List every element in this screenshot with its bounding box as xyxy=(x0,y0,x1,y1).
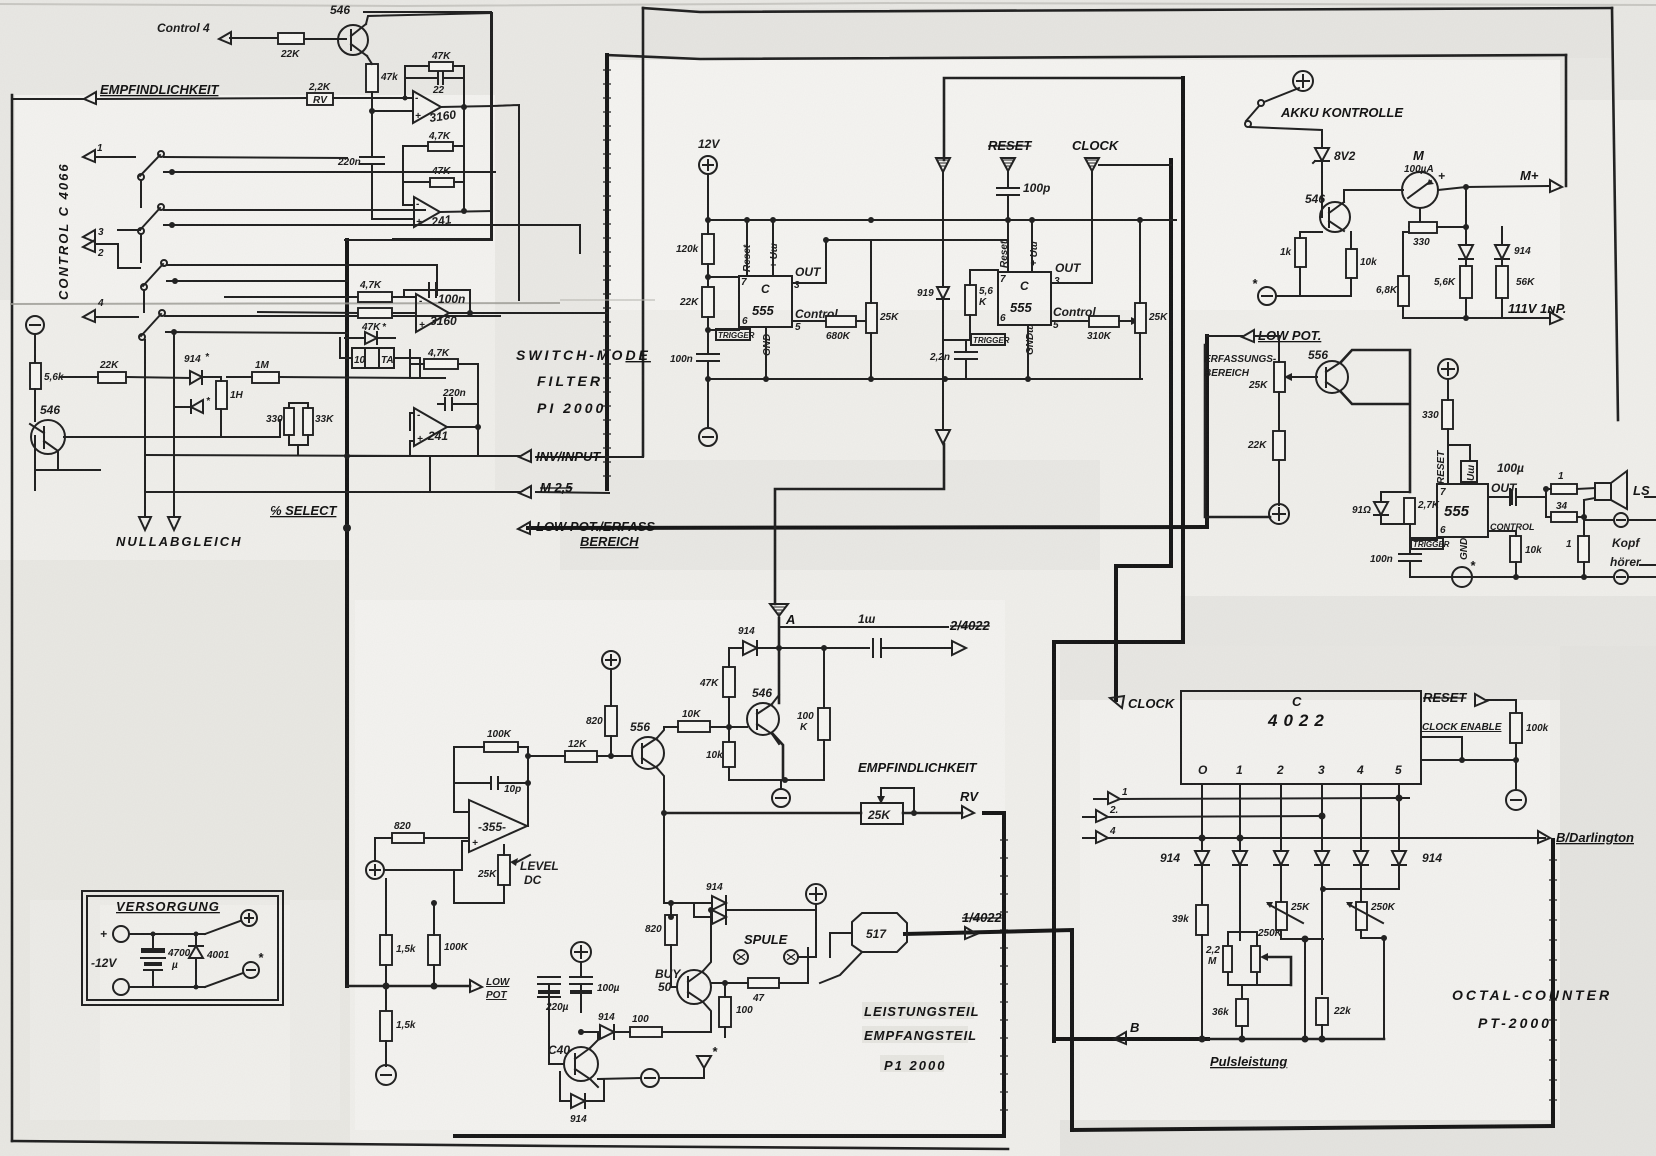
wire bus junction dot lowpot xyxy=(343,524,351,532)
wire 556 emitter down to RV line xyxy=(657,768,694,903)
coil contact 1 xyxy=(734,950,748,964)
node minus circle gnd xyxy=(707,379,709,428)
wire erfassungs box xyxy=(1205,345,1270,517)
resistor 1K vertical xyxy=(1295,238,1306,267)
wire 12V down xyxy=(707,174,709,220)
diode column 0 xyxy=(1195,851,1209,865)
transistor Q4 556 erfassung xyxy=(1316,361,1348,393)
wire A node step xyxy=(775,444,944,604)
diode D13 4001 xyxy=(189,946,203,958)
wire clock vertical from 555 out xyxy=(1116,160,1171,700)
scan top edge line xyxy=(0,3,1656,6)
node minus circle gnd mid xyxy=(641,1069,659,1087)
wire c40 emitter to gnd xyxy=(590,1078,640,1087)
node + circle erfassung xyxy=(1269,504,1289,524)
wire EMPFINDLICHKEIT RV line xyxy=(664,812,861,815)
resistor 10K 555-3 xyxy=(1510,536,1521,562)
wire zener column xyxy=(942,172,944,430)
switch to - output xyxy=(205,973,243,987)
node LOW POT arrow bottom xyxy=(470,980,482,992)
switch S4 xyxy=(141,314,161,336)
diode D7 914 xyxy=(1495,245,1509,259)
transistor Q5 546 mid xyxy=(747,703,779,735)
potentiometer LEVEL DC 25K xyxy=(498,855,510,885)
wire BUY50 wiring xyxy=(671,910,711,1032)
wire output right xyxy=(441,106,492,107)
wire switch chain link 3 xyxy=(143,290,145,312)
wire right-bottom frame right vertical B/Darlington loop xyxy=(1551,840,1555,1126)
potentiometer 250K column4 xyxy=(1356,902,1367,930)
node INV/INPUT arrow xyxy=(519,450,531,462)
node CLOCK flag xyxy=(1085,158,1099,171)
resistor 5.2K mid xyxy=(428,142,453,151)
node minus circle 4022 xyxy=(1506,790,1526,810)
capacitor 220n xyxy=(360,157,384,219)
wire mid top inner box xyxy=(944,78,1182,160)
wire 3/2 vertical to switches xyxy=(118,230,140,268)
node + circle above 820 xyxy=(602,651,620,669)
text P12000 xyxy=(880,1055,944,1072)
resistor 47K vertical a-node xyxy=(723,667,735,697)
wire Vcc rail xyxy=(708,219,1176,221)
node + out circle xyxy=(241,910,257,926)
IC U6 555 second xyxy=(998,272,1051,325)
wire switch to zener xyxy=(1250,127,1322,148)
wire line 4 to B/Darlington xyxy=(1096,831,1108,843)
resistor 4.7K pair top xyxy=(358,292,392,302)
resistor 34 lower xyxy=(1546,489,1551,517)
wire 2.2M to 36k xyxy=(1241,985,1243,999)
resistor 56K vertical akku xyxy=(1496,266,1508,298)
potentiometer 25K first xyxy=(866,303,877,333)
text LEISTUNGSTEIL xyxy=(862,1002,974,1019)
resistor 100K 4022 xyxy=(1510,713,1522,743)
wire base xyxy=(304,38,346,40)
wire hoerer line xyxy=(1640,564,1656,566)
inductor 1H xyxy=(216,381,227,409)
op-amp U3 3160 xyxy=(416,294,449,332)
wire TA wiring xyxy=(340,338,420,378)
wire s3 lines xyxy=(167,265,437,295)
resistor 330 vertical xyxy=(284,408,294,435)
wire long horizontals to filter resistors xyxy=(225,297,358,313)
wire + rail xyxy=(129,933,205,935)
diode column 4 xyxy=(1354,851,1368,865)
node EMPFINDLICHKEIT arrow xyxy=(84,92,96,104)
wire minus to 5.6k xyxy=(34,334,36,363)
wire collector to frame xyxy=(366,13,492,24)
wire frame vertical 492 xyxy=(345,13,492,240)
wire right-bottom frame bottom xyxy=(1072,1126,1553,1130)
resistor RV 2.2K xyxy=(307,93,333,105)
resistor 100K vertical bottom-left xyxy=(428,935,440,965)
box 517 driver xyxy=(852,913,907,952)
wire meter to M+ arrow xyxy=(1438,186,1548,190)
resistor 820 vertical xyxy=(605,706,617,736)
wire output to frame xyxy=(449,312,607,314)
resistor 680K xyxy=(826,316,856,327)
wire 2/4022 upper line xyxy=(779,626,948,628)
resistor 47K feedback top xyxy=(429,62,453,71)
diode column 1 xyxy=(1233,851,1247,865)
resistor 5.6K vertical xyxy=(30,363,41,389)
node CLOCK arrow 4022 xyxy=(1110,696,1124,708)
diode D3 above TA box xyxy=(365,332,377,344)
box TRIGGER 555-3 xyxy=(1411,538,1443,549)
wire 47K-2 xyxy=(403,181,464,183)
node + circle cap xyxy=(571,942,591,962)
resistor 47K pair bottom xyxy=(358,308,392,318)
transistor Q2 546 lower-left xyxy=(31,420,65,454)
capacitor 220n 241 xyxy=(438,398,478,410)
capacitor 1n series xyxy=(873,639,952,657)
node + circle left xyxy=(366,861,384,879)
node B/Darlington arrow xyxy=(1538,831,1550,843)
ground star symbol xyxy=(697,1056,711,1068)
node minus star xyxy=(1258,287,1276,305)
wire arrow into pot 25K xyxy=(856,320,866,322)
capacitor 100u out xyxy=(1488,489,1546,505)
op-amp U1 3160 xyxy=(413,91,441,123)
box TA optocoupler xyxy=(352,348,394,368)
wire B line horizontal xyxy=(1054,1037,1208,1041)
wire top outer frame right vertical xyxy=(1612,8,1618,420)
resistor 100 horizontal low xyxy=(630,1027,662,1037)
wire zener to base xyxy=(1321,161,1322,217)
potentiometer 25K erfassung xyxy=(1274,362,1285,392)
wire left main bus vertical xyxy=(345,240,349,986)
wire s2 lines xyxy=(164,209,425,211)
node LOW POT arrow xyxy=(1242,330,1254,342)
box 25K empfindlichkeit xyxy=(861,803,903,824)
wire inner top frame horizontal xyxy=(607,55,1566,59)
scan seam line left half xyxy=(10,303,560,304)
resistor 10K horizontal xyxy=(678,721,710,732)
wire plus input from emitter node xyxy=(372,110,413,112)
op-amp U2 241 xyxy=(414,197,440,227)
wire 241-2 wiring xyxy=(410,364,478,456)
wire pin stubs xyxy=(1202,784,1399,851)
node + supply akku xyxy=(1293,71,1313,91)
wire 517 down to transistor xyxy=(820,933,862,983)
op-amp U4 241 xyxy=(414,408,447,446)
ground flag second xyxy=(168,517,180,530)
resistor 22K xyxy=(278,33,304,44)
switch S1 xyxy=(140,155,160,176)
capacitor 100u mid xyxy=(570,963,592,997)
text EMPFANGSTEIL xyxy=(862,1026,968,1043)
switch S2 xyxy=(140,208,160,230)
potentiometer 25K column2 xyxy=(1276,902,1287,930)
node arrow 1 xyxy=(83,150,95,162)
zener D5 8V2 xyxy=(1315,148,1329,161)
wire left page border vertical xyxy=(11,95,14,1141)
wire output stub to 517 vertical xyxy=(492,105,519,300)
node + circle 330 xyxy=(1438,359,1458,379)
resistor 22K horizontal xyxy=(98,372,126,383)
wire wiper arrow from 556 xyxy=(1292,376,1317,378)
meter M 100uA xyxy=(1402,172,1438,208)
resistor 310K xyxy=(1089,316,1119,327)
wire 556 to 555-3 xyxy=(1341,350,1410,492)
resistor 47K vertical emitter xyxy=(366,64,378,92)
wire 241 out down xyxy=(477,427,479,456)
diode D12 914 bottom loop xyxy=(560,1072,571,1101)
ground flag node A xyxy=(770,604,788,616)
capacitor 4700u electrolytic xyxy=(152,934,154,948)
zener D8 91 ohm xyxy=(1374,502,1388,515)
wire pot wiper loop xyxy=(1260,953,1268,961)
resistor 22K column3 xyxy=(1316,998,1328,1025)
wire s4 lines xyxy=(145,316,500,517)
resistor 820 vertical buy xyxy=(665,915,677,945)
wire pair to opamp xyxy=(392,290,445,313)
capacitor 22 xyxy=(405,72,464,84)
resistor 22K erfassung xyxy=(1273,431,1285,460)
node M2.5 arrow xyxy=(519,486,531,498)
diode column 3 xyxy=(1315,851,1329,865)
capacitor 2.2n xyxy=(955,340,977,379)
wire select line xyxy=(145,455,430,492)
wire INV/INPUT line xyxy=(462,456,643,457)
box TRIGGER label 555-2 xyxy=(971,334,1005,345)
wire diode to cap xyxy=(757,647,869,649)
transistor Q1 546 xyxy=(338,25,368,55)
wire 241 inputs xyxy=(372,205,414,219)
resistor 47K above 241 xyxy=(430,178,454,187)
wire clock enable net xyxy=(1421,737,1516,760)
box versorgung frame xyxy=(82,891,283,1005)
wire 555-1 out xyxy=(792,240,1008,283)
diode column 5 xyxy=(1392,851,1406,865)
resistor 100K vertical right xyxy=(818,708,830,740)
node + circle spule xyxy=(806,884,826,904)
resistor 47 horizontal xyxy=(748,978,779,988)
node minus circle mid xyxy=(772,789,790,807)
wire top-left box around op-amps xyxy=(364,12,491,239)
wire arrow into pot 25K second xyxy=(1119,320,1131,322)
resistor 1.5K second xyxy=(380,1011,392,1041)
node Control 4 arrow xyxy=(230,37,278,39)
op-amp U8 355 xyxy=(469,800,527,852)
resistor 2.7K vertical xyxy=(1404,498,1415,524)
node phone jack circle 1 xyxy=(1584,519,1614,521)
wire feedback 47K xyxy=(405,66,464,211)
capacitor 10p xyxy=(454,747,528,789)
wire control 555-2 xyxy=(1051,320,1089,322)
wire meter bottom to 330 xyxy=(1409,208,1420,227)
resistor 330 vertical right xyxy=(1442,400,1453,429)
wire switch chain link 2 xyxy=(140,234,142,262)
wire low pot arrow line bottom left xyxy=(347,985,470,988)
switch S3 xyxy=(143,264,163,286)
resistor 47K lower block xyxy=(424,359,458,369)
resistor 1 vertical kopf xyxy=(1578,536,1589,562)
wire 241 output xyxy=(440,211,492,212)
wire A vertical xyxy=(772,618,783,780)
potentiometer 25K second xyxy=(1135,303,1146,333)
resistor 39K column0 xyxy=(1196,905,1208,935)
IC U5 555 first xyxy=(739,276,792,327)
transistor Q7 BUY50 xyxy=(677,970,711,1004)
capacitor 100p xyxy=(997,171,1019,240)
resistor 1M horizontal xyxy=(252,372,279,383)
transistor Q8 C40 xyxy=(564,1047,598,1081)
wire bottom pulse rail xyxy=(1208,1038,1384,1041)
wire 1/4022 heavy line xyxy=(905,930,1072,1130)
zener D4 919 xyxy=(937,287,949,299)
node - out circle star xyxy=(243,962,259,978)
capacitor 100n xyxy=(697,354,719,379)
wire 556 collector to 10K xyxy=(657,727,664,738)
diode D2 lower xyxy=(191,400,203,413)
wire collector to meter xyxy=(1344,190,1403,202)
box TRIGGER label 555-1 xyxy=(716,329,750,340)
wire zener 2.7k parallel xyxy=(1381,492,1437,540)
switch to + output xyxy=(196,921,240,934)
speaker LS xyxy=(1595,483,1611,500)
box Ue 555-3 xyxy=(1461,461,1477,482)
resistor 5.6K vertical akku xyxy=(1460,266,1472,298)
resistor 1.5K vertical xyxy=(380,935,392,965)
wire 555 frame right vertical down xyxy=(1181,78,1185,642)
resistor 2.2M pair box xyxy=(1228,932,1257,985)
wire gnd rail xyxy=(708,378,1142,380)
diode D9 914 top xyxy=(729,647,743,649)
wire transistor to bus xyxy=(34,470,36,490)
node +12V supply xyxy=(699,156,717,174)
node arrow 4 xyxy=(83,310,95,322)
resistor 820 horizontal xyxy=(392,833,424,843)
resistor 10K vertical akku xyxy=(1346,249,1357,278)
node B arrow xyxy=(1114,1032,1126,1044)
wire top outer frame left vertical xyxy=(642,8,645,456)
node - terminal xyxy=(113,979,129,995)
IC U9 4022 box xyxy=(1181,691,1421,784)
wire IIIV INP line xyxy=(1403,317,1548,319)
node phone jack circle 2 xyxy=(1614,570,1628,584)
ground flag small mid xyxy=(936,158,950,172)
node arrow 3 2 xyxy=(83,230,95,242)
resistor 1 horizontal speaker xyxy=(1551,484,1577,494)
resistor 33K vertical xyxy=(303,408,313,435)
wire - rail xyxy=(129,986,205,988)
wire RV heavy vertical right xyxy=(455,813,1004,1136)
down arrow connector A xyxy=(936,430,950,444)
resistor 12K horizontal xyxy=(565,751,597,762)
IC U7 555 third xyxy=(1437,484,1488,537)
wire low pot erfass heavy horizontal xyxy=(528,527,1207,528)
wire col2 down xyxy=(1304,939,1306,1039)
wire into 555-3 top xyxy=(1469,482,1471,484)
wire line 1 xyxy=(1108,792,1120,804)
diode D1 914 xyxy=(190,371,202,384)
wire to opamp minus xyxy=(333,97,413,99)
resistor 36K xyxy=(1236,999,1248,1026)
node LOW POT/ERFASS arrow xyxy=(518,522,530,534)
wire 555-2 supply pins xyxy=(1008,220,1032,379)
resistor 100 vertical buy xyxy=(719,997,731,1027)
node 2/4022 arrow xyxy=(952,641,966,655)
resistor 120K vertical xyxy=(702,234,714,264)
wire collector emitter 546 mid xyxy=(772,695,779,744)
resistor 6.8K vertical xyxy=(1398,276,1409,306)
diode D6 xyxy=(1459,245,1473,259)
resistor 100K feedback xyxy=(484,742,518,752)
resistor 330 horizontal akku xyxy=(1409,222,1437,233)
wire low pot erfass vertical up xyxy=(1205,336,1209,527)
transistor Q3 546 akku xyxy=(1320,202,1350,232)
capacitor 220u xyxy=(538,977,560,1050)
coil contact 2 xyxy=(784,950,798,964)
switch akku xyxy=(1264,88,1299,102)
wire s1 to right xyxy=(164,157,347,158)
wire net to bus xyxy=(347,455,410,457)
resistor 22K vertical xyxy=(702,287,714,317)
wire inner frame right vertical xyxy=(1565,55,1568,186)
node minus circle bottom-left xyxy=(376,1065,396,1085)
node minus star gnd xyxy=(1452,567,1472,587)
wire switch chain link 1 xyxy=(140,180,142,207)
node RESET flag xyxy=(1001,158,1015,171)
wire line 2 xyxy=(1096,810,1108,822)
ground flag S4 xyxy=(139,517,151,530)
node minus circle left xyxy=(26,316,44,334)
capacitor 100n feedback xyxy=(404,283,470,313)
diode column 2 xyxy=(1274,851,1288,865)
wire 5.2K xyxy=(403,146,464,205)
wire collector/emitter nets xyxy=(58,420,280,470)
wire heavy horizontal to B bus xyxy=(1054,642,1183,1041)
wire M2.5 line xyxy=(147,492,609,493)
wire bottom page border xyxy=(12,1141,1008,1149)
capacitor 100n 555-3 xyxy=(1399,540,1421,577)
wire bottom rail 555-3 xyxy=(1410,576,1614,578)
wire to transistor xyxy=(35,389,100,470)
wire 555-1 supply pins xyxy=(708,220,773,379)
wire top outer frame horizontal xyxy=(643,8,1612,12)
wire control to 680K xyxy=(792,320,826,322)
resistor 5.6K vertical 555-2 xyxy=(965,285,976,315)
transistor Q6 556 mid-left xyxy=(632,737,664,769)
wire 555-2 out to clock xyxy=(1051,165,1171,283)
wire inner frame left vertical hatched xyxy=(605,55,609,489)
resistor 10k vertical a-node xyxy=(723,742,735,767)
